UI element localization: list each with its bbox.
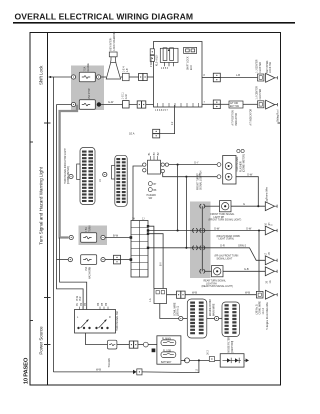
pin circle strip A (179, 316, 183, 320)
svg-text:1-J CENTER: 1-J CENTER (257, 59, 259, 73)
fuse STOP right node (black) (97, 102, 101, 106)
front turn signal light RH (220, 201, 232, 212)
hazard switch left pins (143, 163, 146, 166)
page border frame (30, 33, 281, 386)
svg-text:REAR TURN SIGNAL: REAR TURN SIGNAL (204, 280, 227, 283)
connector C8 (209, 357, 214, 362)
svg-text:To Engine Room Main Wire: To Engine Room Main Wire (266, 301, 269, 330)
svg-text:15A: 15A (85, 266, 88, 271)
svg-text:1H: 1H (269, 222, 271, 225)
wire (121, 259, 132, 261)
svg-text:Shift Lock: Shift Lock (38, 65, 43, 85)
ground bus vertical (258, 231, 260, 292)
fuse HAZ-HORN left pin (68, 258, 72, 262)
turn signal flasher box (223, 156, 236, 185)
connector pair row2 band (192, 228, 198, 232)
junction block body (131, 221, 148, 278)
hazard switch right pins (161, 163, 164, 166)
svg-text:[J/B No.1]: [J/B No.1] (178, 306, 180, 316)
wire (105, 259, 113, 261)
svg-text:SHIFT LOCK: SHIFT LOCK (188, 56, 190, 70)
hazard switch box (148, 160, 161, 174)
junction block left pins (130, 236, 133, 239)
rear turn signal light RH (212, 266, 224, 277)
svg-text:4 6 5 3: 4 6 5 3 (161, 68, 169, 70)
connector pair row4 (199, 269, 205, 273)
connector pair row3 bus (199, 246, 205, 250)
svg-text:LIGHT (TURN): LIGHT (TURN) (219, 239, 235, 241)
svg-text:7.5A: 7.5A (84, 66, 87, 71)
svg-text:B-Y: B-Y (161, 262, 163, 266)
wire: feed at y=77 (49, 76, 72, 78)
svg-text:G-W: G-W (126, 94, 128, 100)
meter pin circle 2 (103, 172, 107, 176)
svg-text:INDICATOR: INDICATOR (235, 113, 238, 126)
connector pair row2 bus (199, 228, 205, 232)
branch to ignition key pin (60, 238, 87, 310)
fuse HAZ-HORN (81, 255, 97, 265)
svg-text:G: G (243, 202, 245, 206)
svg-text:1-J CENTER: 1-J CENTER (257, 86, 259, 100)
wire (220, 103, 229, 105)
ECU internal switch block (160, 48, 178, 66)
wire (243, 103, 258, 105)
row3 wire with jog (148, 248, 265, 260)
ground connector box (256, 291, 263, 298)
svg-text:[COMB. METER]: [COMB. METER] (244, 154, 246, 172)
svg-text:Power Source: Power Source (38, 326, 43, 355)
svg-text:FRONT TURN: FRONT TURN (197, 175, 199, 190)
wire (220, 77, 257, 79)
battery terminal pin (152, 349, 156, 353)
svg-text:MAIN WIRE: MAIN WIRE (213, 303, 216, 316)
to-arrow A (266, 73, 278, 82)
junction to bottom bus (198, 359, 200, 361)
node on sidebar (49, 76, 51, 78)
svg-text:HAZARD: HAZARD (147, 194, 157, 197)
bottom bus wire (53, 371, 133, 373)
connector S1 (123, 73, 130, 80)
fuse STOP left pin (71, 102, 75, 106)
wire (183, 318, 187, 320)
wire hazard to junction block (133, 166, 143, 221)
pin circle strip B (215, 316, 219, 320)
pin circle (143, 342, 148, 347)
svg-text:G-W: G-W (108, 100, 114, 104)
svg-text:ECT SW: ECT SW (230, 106, 240, 108)
svg-text:LOCK SOLENOID: LOCK SOLENOID (114, 31, 116, 50)
svg-text:1-G 11: 1-G 11 (123, 92, 125, 100)
band bus wire (201, 206, 203, 271)
connector C4 (153, 129, 160, 138)
svg-text:10 PASEO: 10 PASEO (23, 357, 29, 384)
switch top stubs (80, 307, 109, 310)
fuse TURN gray block (79, 226, 108, 246)
svg-text:W-B: W-B (245, 291, 250, 295)
connector IH2 (213, 100, 220, 109)
svg-text:15A STOP: 15A STOP (88, 88, 91, 99)
svg-text:G-W: G-W (246, 226, 252, 230)
to-arrow T6 (265, 290, 277, 299)
svg-text:1K 2: 1K 2 (208, 350, 210, 355)
JB right feeds to relay box (148, 226, 154, 288)
svg-text:1J: 1J (142, 219, 144, 221)
wire (138, 344, 144, 346)
sidebar section tick y=297 (44, 297, 51, 299)
gray harness band (190, 202, 211, 279)
flasher terminal L (225, 173, 232, 180)
svg-text:Turn Signal and Hazard Warning: Turn Signal and Hazard Warning Light (38, 166, 43, 245)
connector D2 (258, 101, 264, 108)
svg-text:GRN-2: GRN-2 (238, 244, 247, 248)
svg-text:SIGNAL LIGHT LH: SIGNAL LIGHT LH (200, 170, 203, 190)
svg-text:L-B: L-B (236, 73, 240, 77)
svg-text:OVERALL ELECTRICAL WIRING DIAG: OVERALL ELECTRICAL WIRING DIAGRAM (15, 11, 194, 21)
svg-text:W-B: W-B (96, 368, 101, 372)
fuse IGN (108, 340, 117, 349)
title underline (13, 22, 295, 24)
svg-text:[IGNITION]: [IGNITION] (232, 341, 234, 353)
svg-text:1 6 3 8 2 5 7: 1 6 3 8 2 5 7 (155, 110, 168, 112)
svg-text:(J/B No.2): (J/B No.2) (256, 304, 258, 315)
svg-text:Sliding Roof: Sliding Roof (278, 109, 280, 122)
fuse GAUGE right pin (97, 75, 101, 79)
svg-text:L-B: L-B (127, 68, 129, 72)
svg-text:1J: 1J (196, 369, 198, 371)
svg-text:W-B: W-B (192, 291, 197, 295)
shaded fuse block (gray) (71, 66, 104, 111)
junction row3 (185, 247, 187, 249)
svg-text:HAZ-HORN: HAZ-HORN (88, 266, 91, 278)
junction block right pins (147, 225, 149, 227)
combination meter connector 1 (77, 148, 95, 205)
connector pair row1 (199, 204, 205, 208)
svg-text:1-A: 1-A (149, 298, 152, 302)
ECU left edge connectors (150, 49, 154, 55)
flasher left pins (217, 163, 221, 167)
svg-text:[COMB. METER]: [COMB. METER] (68, 166, 70, 184)
svg-text:LIGHT RH: LIGHT RH (214, 217, 225, 219)
relay box bottom pin wire (160, 304, 179, 319)
hazard switch lower pins (148, 182, 152, 186)
svg-text:Frame Wire: Frame Wire (265, 186, 268, 199)
fuse GAUGE (79, 72, 95, 82)
left frame tick y=142 (30, 141, 33, 143)
svg-text:TURN SIGNAL: TURN SIGNAL (236, 156, 239, 172)
junction flasher feed (257, 205, 259, 207)
wire to junction block (105, 237, 131, 239)
svg-text:1G: 1G (270, 280, 272, 283)
connector pair C1b (137, 101, 146, 108)
svg-text:COWL WIRE: COWL WIRE (174, 302, 176, 316)
svg-text:TURN SIGNAL INDICATOR LIGHT: TURN SIGNAL INDICATOR LIGHT (64, 148, 67, 184)
turn signal switch box (75, 310, 116, 334)
flasher top pins (237, 149, 240, 152)
svg-text:ECU: ECU (191, 65, 193, 70)
fuse TURN (81, 233, 97, 243)
svg-text:KEY INTER-: KEY INTER- (267, 60, 269, 73)
svg-text:NOISE FILTER: NOISE FILTER (229, 337, 231, 353)
wire (129, 76, 139, 78)
meter pin circle (69, 174, 73, 178)
wire from ECU bottom to meter row (160, 105, 175, 134)
svg-text:G-W: G-W (247, 172, 253, 176)
svg-text:1-E 4: 1-E 4 (124, 66, 126, 72)
connector C6 (114, 255, 121, 264)
to-arrow B (266, 100, 278, 109)
fuse HAZ-HORN row wire (57, 259, 69, 261)
svg-text:B-W: B-W (113, 233, 119, 237)
wire (117, 344, 129, 346)
long vertical feed wire x=53.4 (52, 77, 54, 372)
noise filter box (220, 354, 244, 367)
fuse HAZ-HORN right pin (101, 258, 105, 262)
engine room connector strip B (222, 302, 240, 337)
connector C7 (129, 341, 138, 348)
svg-text:(FRONT TURN SIGNAL LIGHT): (FRONT TURN SIGNAL LIGHT) (209, 219, 242, 222)
switch contacts left (78, 320, 91, 329)
svg-text:FLASHER: FLASHER (239, 161, 242, 172)
battery / fusible link box (157, 336, 181, 364)
svg-text:GAUGE: GAUGE (87, 63, 90, 72)
bottom bus continues (142, 360, 199, 372)
flasher terminal B (225, 163, 232, 170)
svg-text:G-W: G-W (214, 226, 220, 230)
connector D1 (258, 74, 264, 81)
vertical feed wire x=56.5 with jog to turn signal switch (57, 105, 84, 310)
svg-text:KEY INTER-: KEY INTER- (111, 37, 113, 50)
wire: hazard feed down (177, 165, 179, 231)
wire ECU out y=104.3 (202, 103, 213, 105)
switch contacts right (96, 320, 109, 329)
wire ECU out y=77.5 (202, 77, 213, 79)
svg-text:(REAR TURN SIGNAL LIGHT): (REAR TURN SIGNAL LIGHT) (202, 285, 234, 288)
svg-text:7.5A: 7.5A (85, 227, 88, 232)
svg-text:COWL WIRE: COWL WIRE (260, 301, 262, 315)
svg-text:LIGHT RH: LIGHT RH (206, 283, 217, 285)
svg-text:ENGINE ROOM: ENGINE ROOM (210, 299, 212, 316)
svg-text:50A AM1: 50A AM1 (108, 357, 111, 367)
A/T indicator label box (229, 101, 243, 108)
svg-text:1H: 1H (132, 219, 135, 221)
svg-text:TURN SIGNAL SW: TURN SIGNAL SW (116, 310, 119, 331)
svg-text:1E A: 1E A (129, 132, 135, 136)
row4 wire (205, 270, 212, 272)
svg-text:KLS+ KLS-: KLS+ KLS- (157, 54, 159, 66)
sidebar divider line (47, 33, 49, 386)
wire hazard to flasher row 2 (163, 173, 217, 177)
thick feed wire (W-B) (60, 105, 77, 238)
ECU bottom pin ticks (158, 103, 199, 107)
svg-text:B-R: B-R (80, 296, 82, 300)
row2 wire (148, 230, 265, 232)
svg-text:CLUSTER: CLUSTER (260, 62, 262, 73)
relay output wire to ground arrow row (167, 294, 257, 296)
svg-text:BATTERY: BATTERY (161, 361, 172, 364)
to-arrow T3 (265, 256, 277, 265)
row1 wire out (231, 205, 265, 207)
right frame tick y=123 (278, 122, 281, 124)
ECU internal relay block (184, 47, 197, 53)
to-arrow T1 (265, 202, 277, 211)
wire (219, 318, 222, 320)
ground connector arrow (133, 370, 137, 374)
svg-text:P RANGE: P RANGE (150, 56, 153, 67)
svg-text:A/T POSITION: A/T POSITION (232, 110, 235, 125)
svg-text:G-Y: G-Y (194, 160, 199, 164)
fuse TURN right pin (101, 235, 105, 239)
key interlock solenoid (flask) (106, 52, 120, 79)
connector IH1 (213, 73, 220, 82)
svg-text:A/T IND: A/T IND (230, 102, 238, 105)
connector S2 on stop row (123, 101, 130, 108)
wire to ECU (101, 104, 154, 106)
fuse TURN left pin (69, 235, 73, 239)
sidebar section tick y=123 (44, 122, 51, 124)
wire (190, 359, 221, 361)
svg-text:TURN: TURN (89, 225, 91, 232)
flasher output wire (236, 177, 258, 207)
to-arrow T4 (265, 267, 277, 276)
row4 wire out (223, 270, 265, 272)
wire between strips (207, 318, 215, 320)
combination meter connector 2 (112, 155, 128, 206)
wire (101, 76, 107, 78)
svg-text:(RR-LH) REAR COMB.: (RR-LH) REAR COMB. (217, 235, 241, 238)
noise filter output arrow (244, 359, 246, 361)
hazard switch top stubs (151, 156, 158, 160)
svg-text:(FR-LH) FRONT TURN: (FR-LH) FRONT TURN (215, 256, 239, 258)
svg-text:G-B: G-B (244, 267, 249, 271)
svg-text:SIGNAL LIGHT: SIGNAL LIGHT (217, 257, 233, 260)
cowl connector strip A (187, 299, 207, 338)
junction (177, 164, 179, 166)
battery output wire (181, 359, 185, 361)
ignition feed wire (86, 333, 108, 345)
svg-text:A/T INDICATOR: A/T INDICATOR (250, 109, 253, 126)
wire hazard to flasher row 1 (169, 164, 218, 166)
fuse STOP (79, 100, 95, 110)
svg-text:1H: 1H (269, 252, 271, 255)
terminal circle (185, 358, 190, 363)
wire (147, 76, 153, 78)
wire (148, 344, 157, 346)
connector C5 (177, 291, 186, 298)
connector pair C1 (139, 73, 148, 80)
svg-text:FRONT TURN SIGNAL: FRONT TURN SIGNAL (211, 213, 236, 216)
junction (185, 176, 187, 178)
fuse GAUGE left pin (71, 75, 75, 79)
fuse TURN row feed wire y=104.5 (57, 104, 74, 106)
svg-text:LOCK SW: LOCK SW (270, 61, 272, 72)
connector pair row3 band (192, 246, 198, 250)
svg-text:CLUSTER: CLUSTER (260, 88, 262, 99)
wire: hazard feed down 2 (185, 177, 187, 248)
shift lock ECU box (154, 42, 203, 108)
wire (121, 76, 123, 78)
row1 wire (205, 205, 220, 207)
svg-text:1G 14: 1G 14 (263, 308, 265, 315)
to-arrow T2 (265, 226, 277, 235)
junction row2 (177, 229, 179, 231)
left frame tick y=320 (30, 320, 33, 322)
svg-text:G-R: G-R (220, 244, 225, 248)
sidebar section tick y=344 (44, 344, 51, 346)
